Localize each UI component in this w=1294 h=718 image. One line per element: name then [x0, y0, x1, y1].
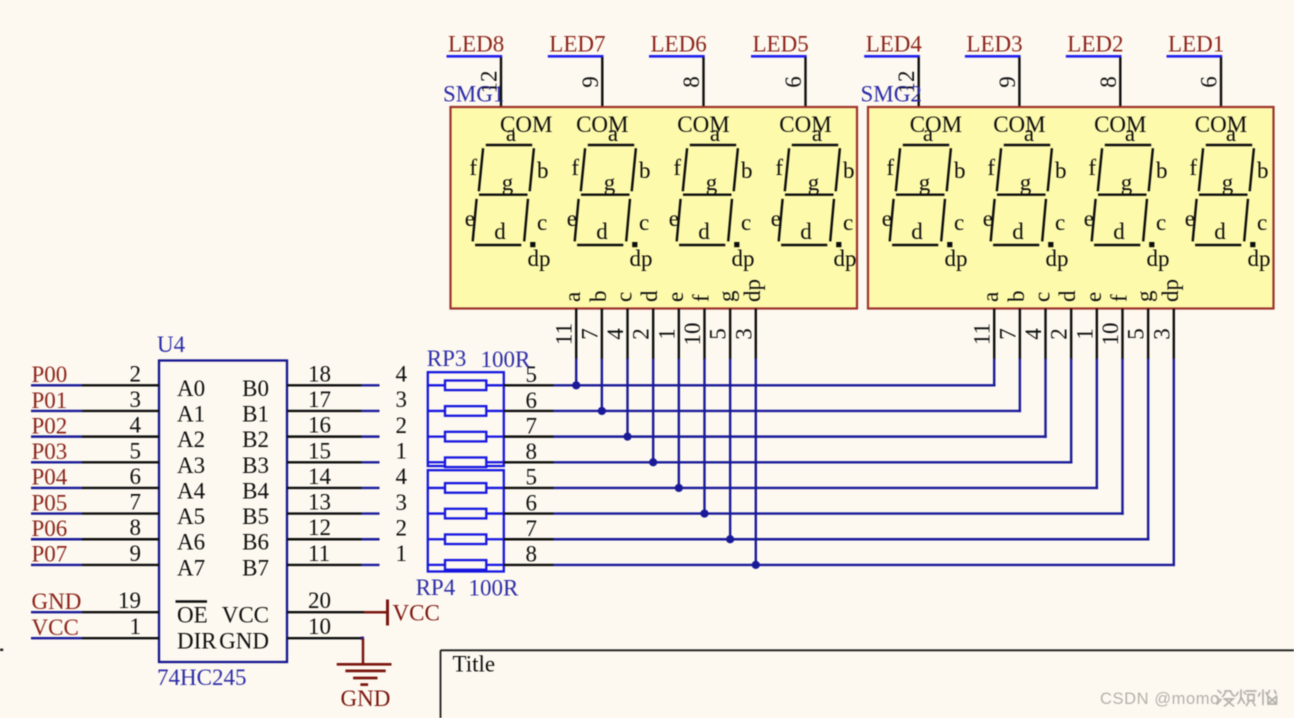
svg-text:b: b	[954, 158, 966, 183]
svg-text:f: f	[987, 155, 995, 180]
svg-text:9: 9	[130, 541, 142, 566]
wire rise to SMG2 pin e	[1096, 359, 1098, 490]
svg-text:c: c	[741, 210, 751, 235]
svg-text:20: 20	[308, 588, 331, 613]
svg-text:6: 6	[526, 490, 538, 515]
svg-text:COM: COM	[677, 112, 729, 137]
7-seg digit glyph 2 of SMG2	[983, 121, 1069, 271]
wire rise to SMG2 pin d	[1070, 359, 1072, 464]
7-seg display SMG1 body	[451, 107, 858, 309]
pin 8 (A6) of U4	[82, 515, 205, 555]
pin 12 (COM) of SMG2	[894, 57, 919, 108]
junction node at SMG1 f	[700, 509, 708, 517]
svg-text:1: 1	[396, 438, 408, 463]
svg-text:7: 7	[526, 413, 538, 438]
svg-text:b: b	[1156, 158, 1168, 183]
wire drop from SMG1 pin g	[729, 359, 731, 540]
svg-text:4: 4	[130, 413, 142, 438]
wire net LED7	[548, 55, 604, 58]
svg-text:7: 7	[526, 516, 538, 541]
pin 9 (A7) of U4	[82, 541, 205, 581]
svg-text:a: a	[608, 121, 618, 146]
title block border	[441, 650, 1294, 718]
wire rise to SMG2 pin dp	[1173, 359, 1175, 567]
pin 4 (segment c) of SMG1	[603, 292, 637, 360]
pin 6 of RP4	[504, 490, 554, 515]
svg-text:f: f	[775, 155, 783, 180]
watermark CJK glyphs (drawn)	[1216, 690, 1277, 706]
wire rise to SMG2 pin b	[1019, 359, 1021, 413]
svg-text:d: d	[911, 219, 923, 244]
pin 12 (B6) of U4	[242, 515, 361, 555]
pin 12 (COM) of SMG1	[477, 57, 502, 108]
svg-text:LED6: LED6	[651, 32, 707, 57]
7-seg digit glyph 1 of SMG2	[882, 121, 968, 271]
sheet border tick (left margin)	[0, 649, 3, 651]
pin 7 (segment b) of SMG2	[995, 291, 1029, 360]
wire segment-d net: RP output to SMG2	[554, 461, 1073, 463]
pin 7 (segment b) of SMG1	[577, 291, 611, 360]
svg-text:f: f	[688, 294, 713, 302]
svg-text:8: 8	[526, 439, 538, 464]
junction node at SMG1 d	[649, 458, 657, 466]
wire segment-c net: RP output to SMG2	[554, 435, 1047, 437]
svg-text:g: g	[502, 170, 514, 195]
svg-text:B6: B6	[242, 530, 269, 555]
svg-text:a: a	[506, 121, 516, 146]
svg-text:SMG2: SMG2	[861, 82, 922, 107]
resistor pack RP3 body	[428, 372, 504, 466]
svg-text:P03: P03	[32, 439, 68, 464]
resistor RP3 element 2-7	[428, 432, 504, 442]
svg-text:Title: Title	[453, 652, 496, 677]
svg-text:e: e	[663, 292, 688, 302]
wire net P03	[31, 461, 82, 463]
wire net LED2	[1066, 55, 1122, 58]
svg-text:e: e	[567, 206, 577, 231]
svg-text:a: a	[560, 292, 585, 302]
svg-text:g: g	[714, 290, 739, 302]
pin 10 (segment f) of SMG1	[680, 294, 714, 360]
pin 9 (COM) of SMG2	[995, 57, 1020, 108]
svg-text:VCC: VCC	[393, 601, 440, 626]
svg-text:15: 15	[308, 438, 331, 463]
svg-text:dp: dp	[732, 246, 755, 271]
7-seg digit glyph 1 of SMG1	[465, 121, 551, 271]
wire net VCC	[31, 637, 82, 639]
svg-text:18: 18	[308, 361, 331, 386]
svg-text:a: a	[1024, 121, 1034, 146]
wire net LED5	[751, 55, 807, 58]
pin 1 (segment e) of SMG2	[1072, 292, 1106, 360]
svg-text:COM: COM	[779, 112, 831, 137]
svg-text:1: 1	[1072, 328, 1097, 340]
svg-text:5: 5	[1124, 328, 1149, 340]
svg-text:11: 11	[308, 541, 330, 566]
svg-text:dp: dp	[630, 246, 653, 271]
svg-text:A4: A4	[177, 478, 206, 503]
svg-text:a: a	[1125, 121, 1135, 146]
svg-text:2: 2	[1047, 328, 1072, 340]
svg-text:8: 8	[679, 76, 704, 88]
svg-text:f: f	[886, 155, 894, 180]
pin 6 (COM) of SMG1	[781, 57, 806, 108]
svg-text:f: f	[673, 155, 681, 180]
wire U4 B2 to resistor pack	[362, 435, 380, 437]
wire U4 B3 to resistor pack	[362, 461, 380, 463]
svg-text:5: 5	[706, 328, 731, 340]
pin 1 (segment e) of SMG1	[654, 292, 688, 360]
svg-text:f: f	[1088, 155, 1096, 180]
svg-text:g: g	[604, 170, 616, 195]
svg-text:d: d	[596, 219, 608, 244]
svg-text:dp: dp	[528, 246, 551, 271]
pin 20 (VCC) of U4	[222, 588, 364, 628]
svg-text:b: b	[537, 158, 549, 183]
svg-text:LED1: LED1	[1168, 32, 1224, 57]
wire net P07	[31, 564, 82, 566]
svg-text:a: a	[710, 121, 720, 146]
resistor RP4 element 3-6	[428, 509, 504, 519]
pin 7 of RP3	[504, 413, 554, 438]
svg-text:P07: P07	[32, 542, 68, 567]
wire rise to SMG2 pin c	[1044, 359, 1046, 438]
svg-text:1: 1	[654, 328, 679, 340]
svg-text:7: 7	[995, 328, 1020, 340]
svg-text:c: c	[1030, 292, 1055, 302]
svg-text:10: 10	[1098, 323, 1123, 346]
svg-text:3: 3	[396, 490, 408, 515]
pin 5 (A3) of U4	[82, 438, 205, 478]
svg-text:d: d	[637, 290, 662, 302]
wire net P00	[31, 384, 82, 386]
svg-text:4: 4	[1021, 328, 1046, 340]
svg-text:3: 3	[130, 387, 142, 412]
svg-text:100R: 100R	[481, 347, 532, 372]
wire U4 B6 to resistor pack	[362, 538, 380, 540]
wire drop from SMG1 pin a	[575, 359, 577, 386]
svg-text:g: g	[706, 170, 718, 195]
wire segment-a net: RP output to SMG2	[554, 384, 996, 386]
svg-text:19: 19	[118, 588, 141, 613]
svg-text:8: 8	[526, 542, 538, 567]
svg-text:dp: dp	[1147, 246, 1170, 271]
resistor RP3 element 4-5	[428, 381, 504, 391]
svg-text:dp: dp	[834, 246, 857, 271]
pin 3 (A1) of U4	[82, 387, 205, 427]
pin 5 of RP3	[504, 362, 554, 387]
svg-text:4: 4	[603, 328, 628, 340]
pin 6 of RP3	[504, 388, 554, 413]
svg-text:P00: P00	[32, 362, 68, 387]
wire net P06	[31, 538, 82, 540]
wire drop from SMG1 pin f	[703, 359, 705, 514]
pin 2 (segment d) of SMG1	[629, 290, 663, 360]
resistor pack RP4 body	[428, 470, 504, 571]
svg-text:8: 8	[130, 515, 142, 540]
svg-text:d: d	[800, 219, 812, 244]
svg-text:8: 8	[1096, 76, 1121, 88]
svg-text:d: d	[494, 219, 506, 244]
svg-text:2: 2	[396, 413, 408, 438]
svg-text:d: d	[1113, 219, 1125, 244]
pin 3 (segment dp) of SMG1	[731, 279, 765, 360]
resistor RP3 element 3-6	[428, 406, 504, 416]
wire net LED6	[649, 55, 705, 58]
wire rise to SMG2 pin g	[1147, 359, 1149, 541]
svg-text:6: 6	[781, 76, 806, 88]
pin 17 (B1) of U4	[242, 387, 361, 427]
pin 13 (B5) of U4	[242, 490, 361, 530]
resistor RP4 element 1-8	[428, 560, 504, 570]
svg-text:4: 4	[396, 362, 408, 387]
svg-text:1: 1	[130, 614, 142, 639]
svg-text:6: 6	[130, 464, 142, 489]
svg-text:11: 11	[970, 323, 995, 345]
wire rise to SMG2 pin f	[1121, 359, 1123, 515]
pin 3 (segment dp) of SMG2	[1149, 279, 1183, 360]
svg-text:A6: A6	[177, 530, 205, 555]
svg-text:P04: P04	[32, 465, 68, 490]
svg-text:e: e	[465, 206, 475, 231]
wire net P04	[31, 487, 82, 489]
svg-text:e: e	[882, 206, 892, 231]
wire drop from SMG1 pin dp	[755, 359, 757, 565]
pin 5 (segment g) of SMG1	[706, 290, 740, 360]
svg-text:LED3: LED3	[966, 32, 1022, 57]
svg-text:1: 1	[396, 541, 408, 566]
svg-text:g: g	[1222, 170, 1234, 195]
pin 11 (segment a) of SMG1	[552, 292, 586, 360]
svg-text:dp: dp	[1248, 246, 1271, 271]
svg-text:COM: COM	[1195, 112, 1247, 137]
svg-text:b: b	[639, 158, 651, 183]
wire rise to SMG2 pin a	[993, 359, 995, 387]
wire net GND	[31, 611, 82, 613]
svg-text:c: c	[843, 210, 853, 235]
svg-text:RP3: RP3	[427, 346, 467, 371]
pin 8 of RP4	[504, 542, 554, 567]
svg-text:RP4: RP4	[416, 575, 456, 600]
svg-text:16: 16	[308, 413, 331, 438]
wire net LED1	[1167, 55, 1223, 58]
svg-text:A3: A3	[177, 453, 205, 478]
junction node at SMG1 g	[726, 535, 734, 543]
junction node at SMG1 b	[598, 407, 606, 415]
svg-text:U4: U4	[157, 332, 186, 357]
svg-text:a: a	[812, 121, 822, 146]
svg-text:b: b	[1257, 158, 1269, 183]
svg-text:g: g	[1020, 170, 1032, 195]
7-seg display SMG2 body	[868, 107, 1274, 309]
wire drop from SMG1 pin e	[678, 359, 680, 488]
svg-text:COM: COM	[993, 112, 1045, 137]
wire segment-e net: RP output to SMG2	[554, 487, 1099, 489]
svg-text:P02: P02	[32, 413, 68, 438]
svg-text:B4: B4	[242, 478, 269, 503]
svg-text:B0: B0	[242, 376, 269, 401]
svg-text:LED4: LED4	[866, 32, 923, 57]
svg-text:COM: COM	[910, 112, 962, 137]
svg-text:dp: dp	[740, 279, 765, 302]
svg-text:A1: A1	[177, 401, 205, 426]
svg-text:d: d	[1012, 219, 1024, 244]
svg-text:dp: dp	[1046, 246, 1069, 271]
svg-text:A0: A0	[177, 376, 205, 401]
svg-text:B3: B3	[242, 453, 269, 478]
wire drop from SMG1 pin c	[626, 359, 628, 437]
svg-text:B5: B5	[242, 504, 269, 529]
svg-text:2: 2	[130, 361, 142, 386]
wire segment-f net: RP output to SMG2	[554, 512, 1124, 514]
svg-text:b: b	[586, 291, 611, 303]
pin 7 of RP4	[504, 516, 554, 541]
svg-text:9: 9	[995, 76, 1020, 88]
wire U4 B1 to resistor pack	[362, 410, 380, 412]
pin 5 (segment g) of SMG2	[1124, 290, 1158, 360]
svg-text:B2: B2	[242, 427, 269, 452]
svg-text:A7: A7	[177, 555, 205, 580]
svg-text:e: e	[1081, 292, 1106, 302]
svg-text:dp: dp	[1158, 279, 1183, 302]
svg-text:5: 5	[526, 465, 538, 490]
wire drop from SMG1 pin d	[652, 359, 654, 463]
wire U4 B0 to resistor pack	[362, 384, 380, 386]
svg-text:3: 3	[396, 387, 408, 412]
junction node at SMG1 dp	[752, 561, 760, 569]
resistor RP3 element 1-8	[428, 457, 504, 467]
svg-text:g: g	[1132, 290, 1157, 302]
svg-text:GND: GND	[32, 589, 82, 614]
wire segment-b net: RP output to SMG2	[554, 410, 1022, 412]
7-seg digit glyph 4 of SMG2	[1185, 121, 1271, 271]
svg-text:e: e	[983, 206, 993, 231]
svg-text:b: b	[1055, 158, 1067, 183]
wire net LED4	[864, 55, 920, 58]
svg-text:100R: 100R	[469, 576, 520, 601]
svg-text:COM: COM	[1094, 112, 1146, 137]
svg-text:14: 14	[308, 464, 332, 489]
pin 1 (DIR) of U4	[82, 614, 217, 654]
pin 15 (B3) of U4	[242, 438, 361, 478]
svg-text:c: c	[639, 210, 649, 235]
svg-text:4: 4	[396, 464, 408, 489]
pin 8 (COM) of SMG1	[679, 57, 704, 108]
svg-text:5: 5	[130, 438, 142, 463]
pin 8 of RP3	[504, 439, 554, 464]
svg-text:d: d	[1055, 290, 1080, 302]
svg-text:7: 7	[577, 328, 602, 340]
svg-text:11: 11	[552, 323, 577, 345]
pin 2 (segment d) of SMG2	[1047, 290, 1081, 360]
pin 10 (segment f) of SMG2	[1098, 294, 1132, 360]
svg-text:c: c	[1055, 210, 1065, 235]
svg-text:e: e	[669, 206, 679, 231]
pin 14 (B4) of U4	[242, 464, 361, 504]
pin 10 (GND) of U4	[219, 614, 363, 654]
svg-text:VCC: VCC	[222, 603, 269, 628]
svg-text:g: g	[1121, 170, 1133, 195]
wire net LED3	[965, 55, 1021, 58]
svg-text:f: f	[469, 155, 477, 180]
7-seg digit glyph 2 of SMG1	[567, 121, 653, 271]
power port VCC	[364, 600, 440, 626]
svg-text:6: 6	[526, 388, 538, 413]
wire net P05	[31, 512, 82, 514]
svg-text:9: 9	[578, 76, 603, 88]
svg-text:c: c	[612, 292, 637, 302]
svg-text:LED5: LED5	[753, 32, 809, 57]
svg-text:74HC245: 74HC245	[157, 665, 246, 690]
svg-text:B7: B7	[242, 555, 269, 580]
svg-text:g: g	[919, 170, 931, 195]
chip U4 74HC245 body	[159, 361, 287, 663]
junction node at SMG1 c	[623, 433, 631, 441]
pin 2 (A0) of U4	[82, 361, 205, 401]
junction node at SMG1 a	[572, 381, 580, 389]
pin 19 (OE) of U4	[82, 588, 208, 628]
7-seg digit glyph 3 of SMG1	[669, 121, 755, 271]
svg-text:3: 3	[1149, 328, 1174, 340]
svg-text:c: c	[1257, 210, 1267, 235]
svg-text:3: 3	[731, 328, 756, 340]
svg-text:LED2: LED2	[1067, 32, 1123, 57]
ground symbol GND	[337, 637, 392, 711]
pin 4 (segment c) of SMG2	[1021, 292, 1055, 360]
resistor RP4 element 4-5	[428, 483, 504, 493]
pin 4 (A2) of U4	[82, 413, 205, 453]
svg-text:2: 2	[629, 328, 654, 340]
svg-text:SMG1: SMG1	[443, 82, 504, 107]
svg-text:VCC: VCC	[32, 615, 79, 640]
svg-text:P06: P06	[32, 516, 68, 541]
pin 11 (segment a) of SMG2	[970, 292, 1004, 360]
svg-text:f: f	[1106, 294, 1131, 302]
pin 5 of RP4	[504, 465, 554, 490]
wire U4 B7 to resistor pack	[362, 564, 380, 566]
svg-text:P05: P05	[32, 490, 68, 515]
svg-text:d: d	[698, 219, 710, 244]
svg-text:OE: OE	[177, 603, 208, 628]
svg-text:A5: A5	[177, 504, 205, 529]
svg-text:e: e	[1084, 206, 1094, 231]
svg-text:a: a	[1226, 121, 1236, 146]
pin 16 (B2) of U4	[242, 413, 361, 453]
wire net P01	[31, 410, 82, 412]
wire segment-g net: RP output to SMG2	[554, 538, 1150, 540]
pin 9 (COM) of SMG1	[578, 57, 603, 108]
svg-text:17: 17	[308, 387, 331, 412]
wire U4 B5 to resistor pack	[362, 512, 380, 514]
svg-text:c: c	[954, 210, 964, 235]
svg-text:10: 10	[680, 323, 705, 346]
pin 6 (COM) of SMG2	[1197, 57, 1222, 108]
svg-text:g: g	[808, 170, 820, 195]
svg-text:LED8: LED8	[448, 32, 504, 57]
svg-text:12: 12	[308, 515, 331, 540]
svg-text:dp: dp	[945, 246, 968, 271]
pin 8 (COM) of SMG2	[1096, 57, 1121, 108]
svg-text:a: a	[923, 121, 933, 146]
pin 7 (A5) of U4	[82, 490, 205, 530]
7-seg digit glyph 4 of SMG1	[771, 121, 857, 271]
svg-text:c: c	[537, 210, 547, 235]
svg-text:7: 7	[130, 490, 142, 515]
svg-text:c: c	[1156, 210, 1166, 235]
svg-text:d: d	[1214, 219, 1226, 244]
svg-text:GND: GND	[341, 686, 391, 711]
svg-text:GND: GND	[219, 629, 269, 654]
